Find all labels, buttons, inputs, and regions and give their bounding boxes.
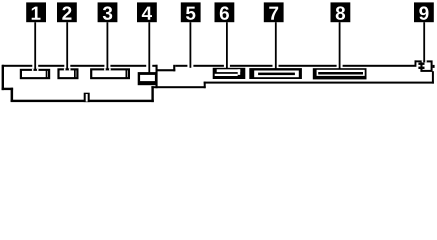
callout box 7 (264, 2, 284, 22)
power connector 9 (418, 60, 434, 72)
connector 1 (serial D-sub) (20, 69, 50, 79)
leader wire 9 (423, 22, 425, 62)
leader wire 5 (190, 22, 192, 68)
notch left wall / connector-4 right wall (156, 65, 158, 88)
callout box 4 (137, 2, 157, 22)
callout box 3 (98, 2, 118, 22)
connector 7 (wide port) (249, 68, 302, 79)
callout box 2 (57, 2, 77, 22)
callout box 5 (181, 2, 201, 22)
bottom tab notch (84, 93, 90, 102)
bottom step wall (mid to right) (204, 82, 206, 89)
connector 2 (small D-sub) (57, 68, 78, 79)
leader wire 8 (339, 22, 341, 69)
right bottom edge (204, 82, 434, 84)
left lower shelf (2, 88, 14, 90)
callout box 9 (414, 2, 434, 22)
callout box 6 (215, 2, 235, 22)
leader wire 2 (66, 22, 68, 71)
leader wire 1 (34, 22, 36, 71)
leader wire 7 (275, 22, 277, 69)
notch right wall (173, 65, 175, 72)
chassis top edge segments (left portion) (2, 65, 32, 67)
connector 3 (video D-sub) (90, 68, 130, 79)
connector 8 (wide port) (313, 68, 367, 79)
connector 6 (keyboard port) (213, 68, 246, 79)
callout box 1 (26, 2, 46, 22)
leader wire 6 (226, 22, 228, 69)
connector 4 (slot box) (138, 72, 158, 85)
power ledge (415, 60, 421, 62)
chassis left edge (2, 65, 4, 90)
leader wire 4 (148, 22, 150, 73)
leader wire 3 (107, 22, 109, 71)
mid bottom shelf edge (151, 86, 205, 88)
deep bottom edge (11, 100, 154, 102)
power step up wall (415, 60, 417, 66)
chassis top edge segments (right portion) (175, 65, 187, 67)
callout box 8 (331, 2, 351, 22)
chassis right edge (432, 71, 434, 83)
bottom step wall (deep to mid) (151, 86, 153, 102)
notch bottom edge (156, 69, 176, 71)
left shelf drop wall (11, 88, 14, 102)
